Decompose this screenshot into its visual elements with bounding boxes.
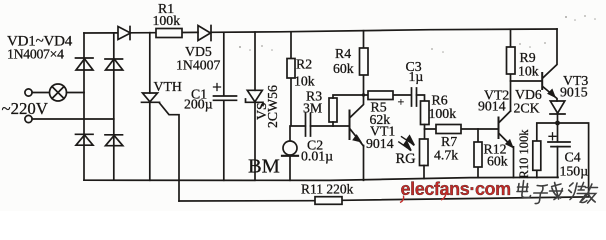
diode VD2 (bridge upper-right)	[105, 59, 123, 70]
capacitor C2	[306, 114, 350, 137]
bridge right column wire	[113, 33, 115, 180]
watermark chinese 电子发烧友	[516, 181, 599, 204]
svg-text:4.7k: 4.7k	[434, 148, 458, 163]
svg-text:60k: 60k	[333, 61, 354, 76]
svg-text:9014: 9014	[478, 99, 506, 114]
svg-text:R10 100k: R10 100k	[517, 129, 531, 179]
svg-text:2CW56: 2CW56	[265, 85, 280, 128]
svg-text:R2: R2	[296, 57, 312, 72]
svg-text:150µ: 150µ	[560, 164, 589, 179]
wire VT3 base link	[511, 80, 542, 82]
diode VD1 (bridge upper-left)	[76, 58, 94, 70]
diode VD6	[550, 101, 565, 123]
svg-text:R11 220k: R11 220k	[301, 182, 354, 197]
svg-text:C4: C4	[565, 150, 581, 165]
node trigger junction	[555, 121, 560, 126]
resistor R9 box and column	[507, 30, 516, 111]
svg-text:60k: 60k	[487, 154, 508, 169]
resistor R10 box and leads	[533, 123, 558, 178]
resistor R1 box	[156, 29, 182, 38]
svg-text:100k: 100k	[153, 13, 181, 28]
diode VD3 (bridge lower-left)	[76, 134, 94, 145]
resistor R2 box and column	[287, 32, 305, 126]
resistor R5 box and leads	[364, 91, 412, 100]
svg-text:10k: 10k	[518, 64, 539, 79]
svg-text:3M: 3M	[303, 101, 322, 116]
wire trigger to R11	[179, 123, 589, 201]
microphone BM	[282, 126, 298, 180]
wire top positive rail	[84, 29, 557, 33]
resistor R11 box	[315, 197, 342, 205]
diode VD4 (bridge lower-right)	[105, 135, 123, 146]
svg-text:BM: BM	[248, 156, 280, 178]
svg-text:RG: RG	[396, 151, 417, 167]
svg-text:VTH: VTH	[154, 79, 182, 94]
photoresistor RG box and arrows	[399, 136, 428, 179]
wire VTH gate lead	[160, 103, 180, 201]
svg-text:R4: R4	[335, 46, 351, 61]
capacitor C4 (electrolytic)	[548, 123, 570, 177]
transistor VT2	[499, 111, 514, 178]
watermark elecfans.com	[400, 179, 511, 203]
terminal upper AC input	[25, 89, 50, 96]
transistor VT1	[350, 95, 364, 180]
svg-text:+: +	[398, 95, 405, 109]
svg-text:2CK: 2CK	[514, 101, 540, 116]
diode VD5	[198, 26, 211, 41]
scan speckles	[239, 15, 596, 53]
diode D-iso (series diode after bridge)	[118, 27, 131, 40]
thyristor VTH	[142, 33, 160, 181]
svg-text:1µ: 1µ	[409, 69, 424, 84]
svg-text:elecfans·com: elecfans·com	[401, 179, 511, 199]
zener diode VS	[246, 32, 264, 180]
svg-text:9015: 9015	[560, 85, 588, 100]
terminal lower AC input	[25, 115, 114, 122]
resistor R12 box and column	[474, 129, 482, 178]
node VT1 collector junction	[362, 93, 365, 96]
svg-text:9014: 9014	[366, 136, 394, 151]
wire bottom ground rail	[84, 177, 558, 180]
svg-text:200µ: 200µ	[184, 97, 213, 112]
resistor R4 box and column	[360, 31, 369, 95]
bridge left column wire	[83, 33, 85, 180]
svg-text:1N4007×4: 1N4007×4	[7, 47, 64, 62]
capacitor C3	[412, 88, 425, 106]
svg-text:100k: 100k	[429, 106, 457, 121]
svg-text:0.01µ: 0.01µ	[301, 149, 333, 164]
resistor R6 box	[421, 101, 430, 139]
svg-text:10k: 10k	[294, 74, 315, 89]
svg-text:1N4007: 1N4007	[176, 58, 221, 73]
resistor R7 box and leads	[425, 125, 499, 134]
transistor VT3	[542, 29, 557, 101]
resistor R3 box and leads	[329, 95, 364, 126]
lamp (bulb with X)	[50, 84, 85, 101]
capacitor C1 (electrolytic)	[214, 32, 237, 180]
svg-text:~220V: ~220V	[2, 99, 48, 118]
